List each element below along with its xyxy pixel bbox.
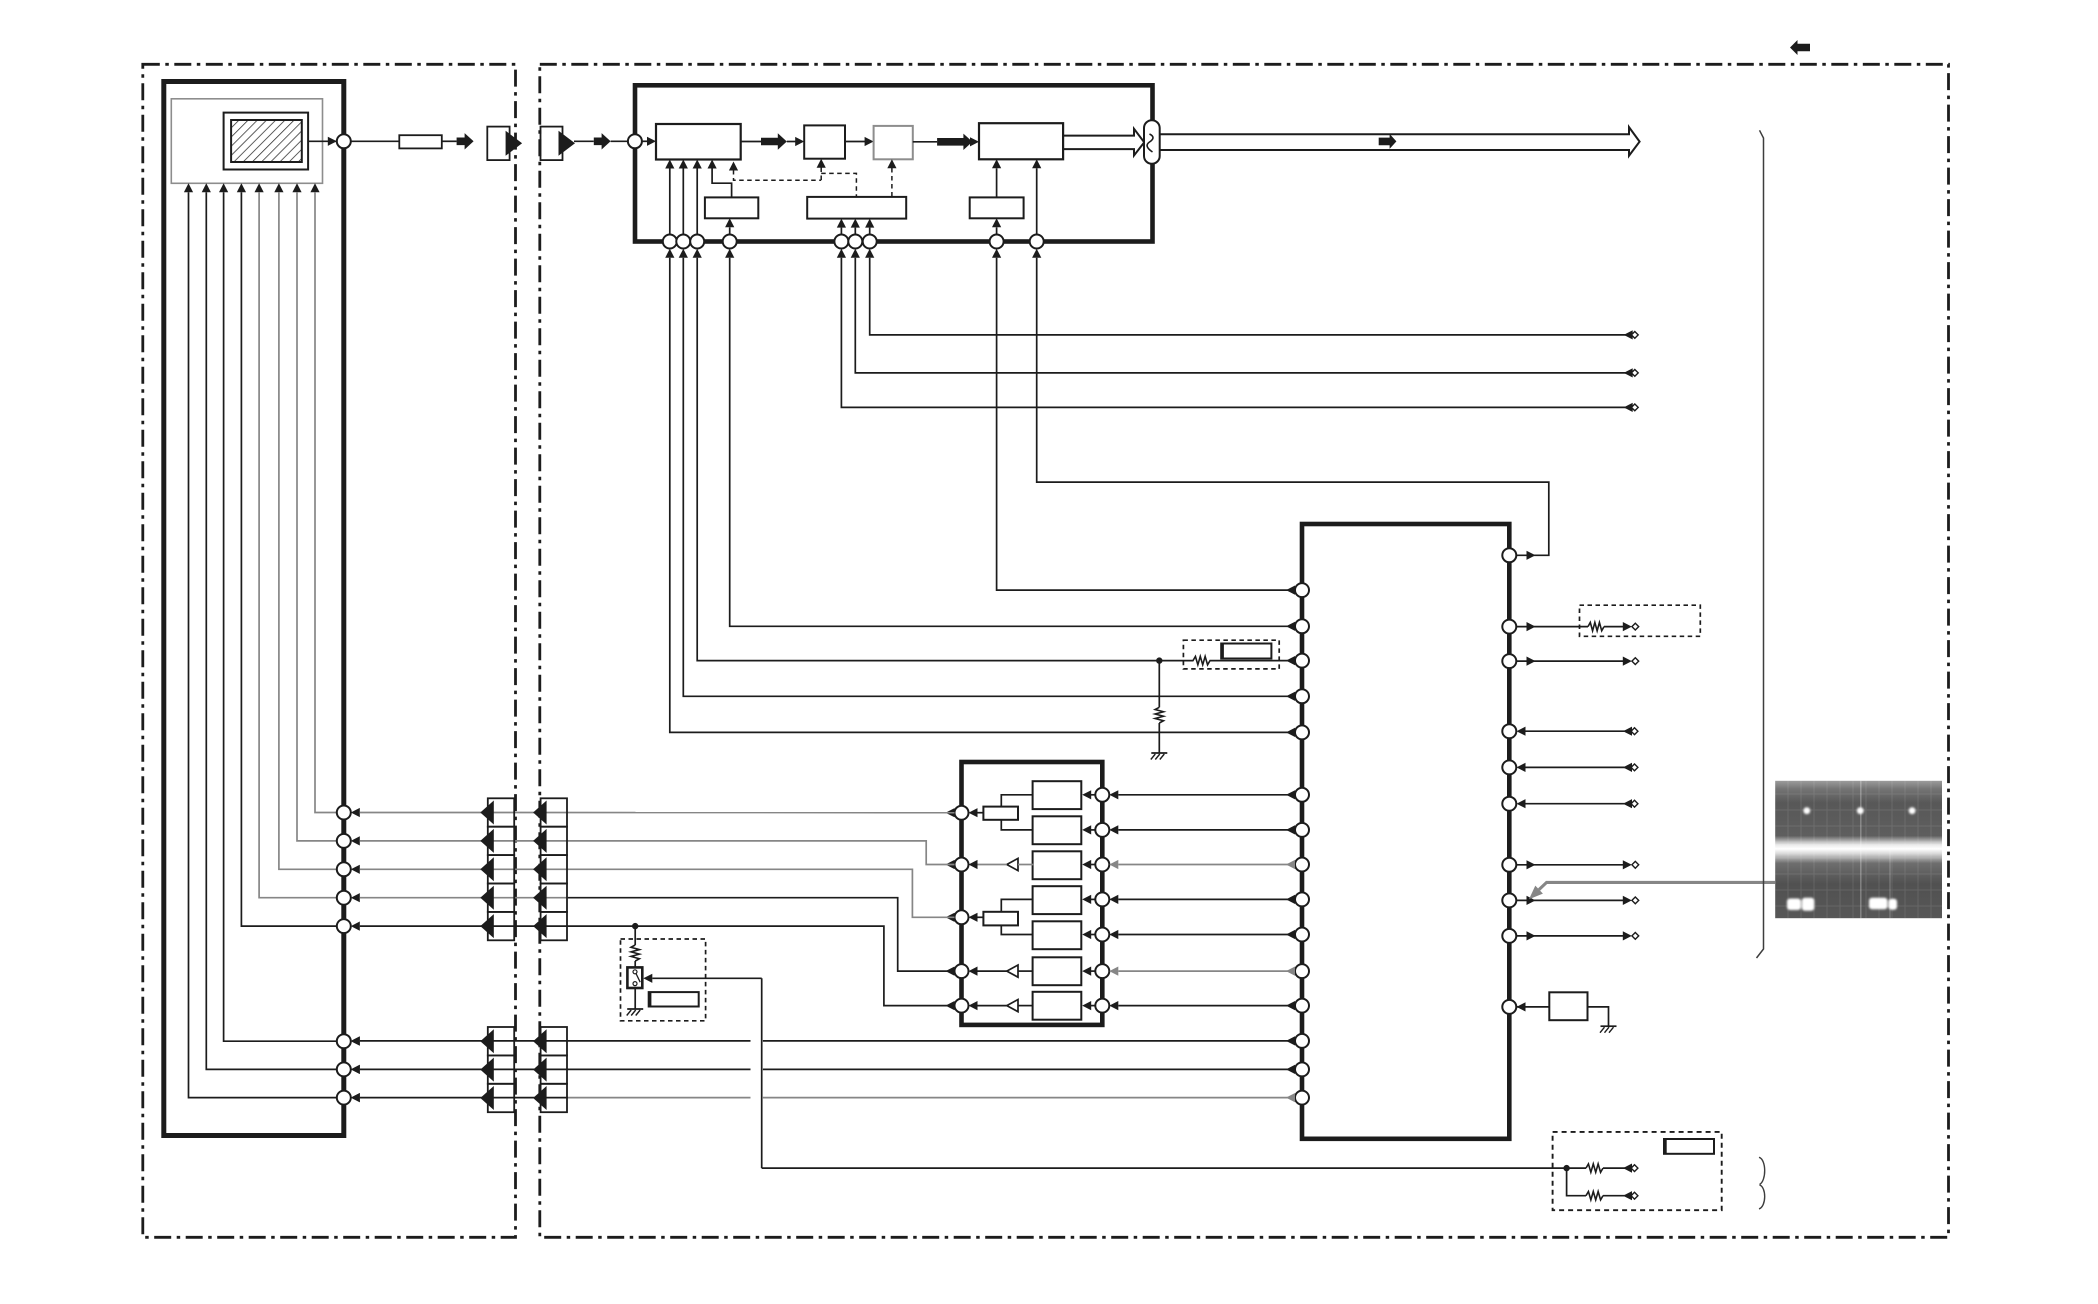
wire: register A input (729, 227, 731, 234)
block: digital stage (874, 126, 913, 159)
pin: driver right 7 (1095, 999, 1109, 1013)
pin: IC right 8 (1502, 893, 1516, 907)
wire: channel 2 input stub (1091, 829, 1095, 831)
pin: IC left 9 (1295, 892, 1309, 906)
ferrite/flex crossing symbol (1144, 120, 1160, 164)
junction: termination input (1563, 1165, 1569, 1171)
continuation arrow (top right) (1790, 40, 1810, 55)
pin: IC left 15 (1295, 1091, 1309, 1105)
wire: sensor drive line V3 (274, 183, 283, 192)
block: output interface (979, 123, 1063, 159)
pin: driver left 2 (955, 858, 969, 872)
wire: vertical drive 5 (360, 926, 955, 1006)
pin: IC left 5 (1295, 725, 1309, 739)
wire: channel 3 input stub (1091, 864, 1095, 866)
pin: IC right 7 (1502, 858, 1516, 872)
connector: inter-board pin g2 col1 row3 (488, 1084, 514, 1112)
pin: AFE bottom 6 (848, 235, 862, 249)
dashed control line to CDS (729, 162, 738, 171)
bus arrow to ferrite (1063, 129, 1144, 156)
pin: driver left 3 (955, 910, 969, 924)
wire: IC in D (1517, 763, 1526, 772)
off-page diamond E2 (1631, 800, 1638, 807)
wire: sensor drive line V7 (202, 183, 211, 192)
off-page diamond F (1631, 370, 1638, 377)
connector: inter-board pin g1 col2 row5 (541, 912, 567, 940)
connector: inter-board pin g2 col2 row3 (541, 1084, 567, 1112)
pin: AFE bottom 5 (834, 235, 848, 249)
wire: oscillator to ground (1588, 1007, 1609, 1026)
block: sensor output coupling (351, 140, 400, 142)
wire: sensor control 2 (360, 1068, 568, 1070)
pin: IC left 14 (1295, 1062, 1309, 1076)
pin: IC right 1 (1502, 548, 1516, 562)
pin: driver left 5 (955, 999, 969, 1013)
wire: arrow to AFE input (611, 140, 628, 142)
off-page diamond H2 (1632, 933, 1639, 940)
amp: buffer B (channel 3) (1007, 858, 1018, 870)
connector: inter-board pin g2 col2 row2 (541, 1055, 567, 1083)
block: mixer A (983, 807, 1018, 820)
wire: IC to driver channel 6 (1118, 970, 1295, 972)
connector: inter-board pin g2 col1 row2 (488, 1055, 514, 1083)
pin: IC right 10 (1502, 1000, 1516, 1014)
frame: main board outline (dash-dot) (540, 64, 1949, 1237)
wire: mixer A to output pin (978, 812, 984, 814)
ground (switch) (627, 1008, 643, 1010)
wire: switch control (652, 977, 761, 979)
wire: channel 7 input stub (1091, 1005, 1095, 1007)
resistor R (H3 series) (1193, 656, 1210, 664)
connector: inter-board pin g1 col2 row2 (541, 827, 567, 855)
wire: sensor control 3 (360, 1097, 568, 1099)
bus direction marker (1379, 134, 1397, 149)
wire + bold arrow to ADC (741, 141, 761, 143)
sensor output wire (308, 140, 337, 142)
pin: IC left 4 (1295, 689, 1309, 703)
block: oscillator (1549, 992, 1587, 1020)
pin: sensor input 6 (337, 1034, 351, 1048)
wire: sensor drive line V6 (219, 183, 228, 192)
connector: board A output pin (487, 127, 509, 161)
wire: IC in E (1517, 799, 1526, 808)
dashed box: switch option (621, 939, 706, 1021)
wire: IC in J (crystal) (1517, 1002, 1526, 1011)
wire: AFE pin to IC pin H3 (with sub net) (697, 258, 1193, 661)
pin: IC right 4 (1502, 724, 1516, 738)
label box (switch test point) (649, 992, 699, 1006)
wire: tap down to resistor (634, 926, 636, 945)
wire: vertical drive 3 (360, 869, 955, 917)
connector: inter-board pin g2 col1 row1 (488, 1027, 514, 1055)
label box (termination) (1664, 1139, 1714, 1154)
switch S1 (627, 967, 642, 988)
pin: IC right 9 (1502, 929, 1516, 943)
pin: sensor input 8 (337, 1091, 351, 1105)
pin: driver left 1 (955, 806, 969, 820)
pin: IC left 3 (1295, 654, 1309, 668)
pin: IC right 6 (1502, 797, 1516, 811)
wire: IC out H (1527, 931, 1536, 940)
junction: switch tap on drive 5 (632, 923, 638, 929)
block: driver channel 7 (1033, 992, 1082, 1020)
vertical driver block outline (962, 762, 1103, 1025)
pin: IC left 11 (1295, 964, 1309, 978)
wire: IC to driver channel 1 (1118, 794, 1295, 796)
wires: CDS control inputs (669, 169, 671, 235)
resistor: switch pull (631, 945, 639, 961)
wire: sensor control 1 (360, 1040, 568, 1042)
block: CDS/AGC stage (656, 124, 741, 160)
pin: IC left 7 (1295, 823, 1309, 837)
wire: timing input G (off-page) (870, 258, 1631, 335)
pin: driver right 5 (1095, 928, 1109, 942)
wire to block 3 (845, 141, 866, 143)
off-page diamond T1 (1631, 1165, 1638, 1172)
pin: sensor input 3 (337, 862, 351, 876)
pin: driver right 2 (1095, 823, 1109, 837)
block: register A (under CDS) (712, 169, 732, 198)
connector: inter-board pin g1 col1 row5 (488, 912, 514, 940)
wire: register B input (996, 227, 998, 234)
pin: driver left 4 (955, 964, 969, 978)
wire: IC to driver channel 3 (1118, 864, 1295, 866)
off-page diamond G (1631, 332, 1638, 339)
off-page diamond B (1632, 658, 1639, 665)
AFE/timing block outline (635, 85, 1153, 241)
off-page diamond A (1632, 623, 1639, 630)
wire: IC to driver channel 2 (1118, 829, 1295, 831)
bracket: channels 1+2 combine (1001, 795, 1032, 830)
pin: IC right 3 (1502, 654, 1516, 668)
resistor: termination 1 (1567, 1167, 1586, 1169)
off-page diamond T2 (1631, 1192, 1638, 1199)
wires: control register inputs (840, 228, 842, 235)
callout arrow: waveform to IC pin (1539, 882, 1775, 889)
pin: IC left 6 (1295, 788, 1309, 802)
block: driver channel 1 (1033, 781, 1082, 809)
pin: IC left 2 (1295, 619, 1309, 633)
pin: AFE bottom 2 (676, 235, 690, 249)
connector: inter-board pin g1 col1 row2 (488, 827, 514, 855)
pin: AFE bottom 7 (863, 235, 877, 249)
signal flow arrow 2 (594, 133, 611, 149)
data bus arrow (to off-page) (1160, 127, 1640, 156)
wire: AFE pin to IC pin H1 (670, 258, 1295, 733)
pin: IC left 13 (1295, 1034, 1309, 1048)
wire: AFE clock from IC right pin (1037, 258, 1549, 556)
wire: IC out F (1527, 860, 1536, 869)
wire: sensor drive line V5 (237, 183, 246, 192)
wire: to connector (442, 140, 457, 142)
bracket: channels 4+5 combine (1001, 899, 1032, 934)
pin: AFE bottom 3 (690, 235, 704, 249)
pin: AFE bottom 4 (723, 235, 737, 249)
wire: IC to driver channel 4 (1118, 898, 1295, 900)
label box (H3 test point) (1221, 644, 1271, 659)
brace: group 1 (1759, 1157, 1765, 1184)
pin: sensor input 5 (337, 919, 351, 933)
frame: sensor board outline (dash-dot) (143, 64, 516, 1237)
wire: AFE pin to IC pin H4 (730, 258, 1295, 627)
pin: sensor input 1 (337, 806, 351, 820)
block: register B (under output) (970, 197, 1024, 218)
wire: mixer C to output pin (978, 916, 984, 918)
amp: buffer E (channel 7) (1007, 1000, 1018, 1012)
amp: buffer D (channel 6) (1007, 965, 1018, 977)
wire: channel 1 input stub (1091, 794, 1095, 796)
ground (oscillator) (1601, 1025, 1617, 1027)
wire: resistor to switch (634, 961, 636, 967)
ground (H3 pulldown) (1151, 752, 1167, 754)
off-page diamond D (1631, 764, 1638, 771)
dashed option box (out A) (1580, 605, 1701, 636)
sensor package rectangle (224, 113, 309, 170)
block: driver channel 2 (1033, 816, 1082, 844)
wire: channel 4 input stub (1091, 898, 1095, 900)
wire: channel 5 input stub (1091, 934, 1095, 936)
wire: sensor drive line V8 (184, 183, 193, 192)
wire + bold arrow to output stage (913, 141, 937, 143)
block: ADC stage (804, 125, 845, 158)
block: control register (wide) (807, 197, 906, 219)
wire: control routing right (762, 1167, 1567, 1169)
connector: inter-board pin g1 col2 row3 (541, 855, 567, 883)
connector: inter-board pin g1 col2 row4 (541, 884, 567, 912)
pin: IC left 12 (1295, 999, 1309, 1013)
connector: inter-board pin g2 col2 row1 (541, 1027, 567, 1055)
bracket: output group (tall) (1757, 130, 1764, 958)
wire: AFE pin to IC pin H2 (683, 258, 1295, 697)
CCD image sensor block outline (164, 82, 344, 1136)
junction on H3 (1156, 657, 1162, 663)
connector: inter-board pin g1 col1 row4 (488, 884, 514, 912)
connector: inter-board pin g1 col1 row1 (488, 798, 514, 826)
dashed option box (H3) (1183, 640, 1279, 669)
sensor inner area (171, 99, 322, 184)
pin: driver right 4 (1095, 892, 1109, 906)
pin: driver right 6 (1095, 964, 1109, 978)
wire: vertical drive 4 (360, 897, 568, 899)
wire: timing input E (off-page) (841, 258, 1631, 408)
wire: sensor drive line V4 (255, 183, 264, 192)
wire: IC out A (with series R) (1527, 622, 1536, 631)
waveform photo (oscilloscope screen) (1775, 781, 1942, 918)
pin: AFE bottom 8 (990, 235, 1004, 249)
wire: sensor drive line V2 (292, 183, 301, 192)
pin: sensor input 7 (337, 1062, 351, 1076)
brace: group 2 (1759, 1185, 1765, 1209)
wire: IC out B (1527, 657, 1536, 666)
pin: IC left 10 (1295, 928, 1309, 942)
dashed control line to digital stage (887, 159, 896, 168)
resistor to ground on H3 (1158, 661, 1160, 708)
sensor output pin (337, 134, 351, 148)
off-page diamond G2 (1632, 897, 1639, 904)
wire: control routing down (761, 978, 763, 1168)
block: driver channel 3 (1033, 851, 1082, 879)
wire: timing input F (off-page) (855, 258, 1631, 373)
wire: connector to arrow (574, 140, 594, 142)
pin: IC right 5 (1502, 760, 1516, 774)
wire: IC to driver channel 5 (1118, 934, 1295, 936)
pin: AFE input (628, 134, 642, 148)
wire: IC in C (1517, 727, 1526, 736)
wire: switch to ground (634, 988, 636, 1009)
wire: AFE pin to IC pin H8 (997, 258, 1295, 590)
off-page diamond E (1631, 404, 1638, 411)
off-page diamond F2 (1632, 861, 1639, 868)
connector: inter-board pin g1 col1 row3 (488, 855, 514, 883)
pin: driver right 3 (1095, 858, 1109, 872)
pin: AFE bottom 9 (1030, 235, 1044, 249)
wire: register B to output stage (996, 168, 998, 197)
block: driver channel 6 (1033, 957, 1082, 985)
wire: vertical drive 1 (360, 812, 955, 814)
pin: AFE bottom 1 (663, 235, 677, 249)
resistor: termination 2 (1567, 1168, 1586, 1196)
block: driver channel 5 (1033, 921, 1082, 949)
pin: sensor input 4 (337, 891, 351, 905)
pin: driver right 1 (1095, 788, 1109, 802)
wire: sensor drive line V1 (310, 183, 319, 192)
pin: IC right 2 (1502, 620, 1516, 634)
connector: inter-board pin g1 col2 row1 (541, 798, 567, 826)
wire: channel 6 input stub (1091, 970, 1095, 972)
pin: IC left 8 (1295, 858, 1309, 872)
off-page diamond C (1631, 728, 1638, 735)
wire: IC out G (monitor point) (1527, 896, 1536, 905)
block: mixer C (983, 912, 1018, 926)
dashed control line to ADC (817, 159, 826, 168)
wire: IC to driver channel 7 (1118, 1005, 1295, 1007)
pin: sensor input 2 (337, 834, 351, 848)
block: driver channel 4 (1033, 886, 1082, 914)
pin: IC left 1 (1295, 583, 1309, 597)
IC: main controller outline (1302, 524, 1509, 1139)
wire: vertical drive 2 (360, 841, 955, 865)
dashed box: termination network (1553, 1132, 1722, 1210)
signal flow arrow 1 (457, 133, 474, 149)
connector: board B input pin (541, 127, 563, 161)
wire: clock to output stage (1036, 168, 1038, 234)
